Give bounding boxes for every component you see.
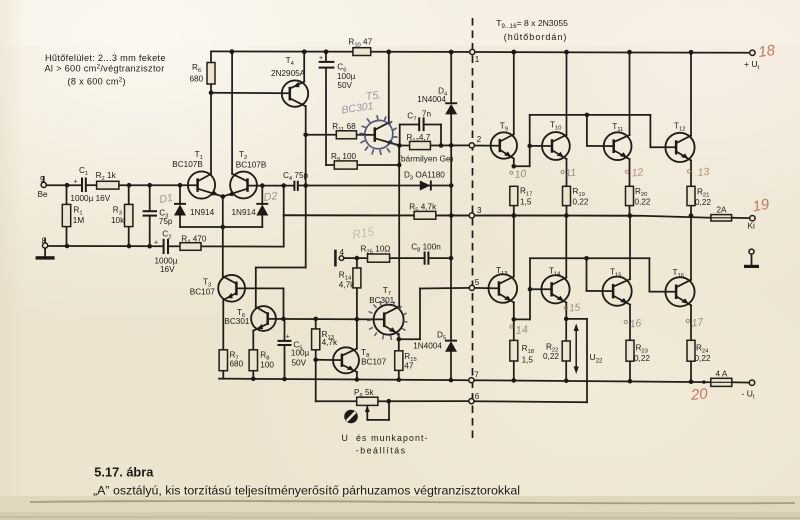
handwritten T5 transistor circle: [360, 115, 398, 155]
T15 base bar: [612, 284, 615, 299]
svg-text:1N4004: 1N4004: [417, 95, 446, 104]
R21 bottom lead: [690, 206, 692, 216]
diode D1 symbol: [174, 205, 186, 216]
node5 to T13 base: [474, 287, 499, 289]
resistor R3 leads: [128, 185, 130, 204]
capacitor C3 plates: [143, 210, 157, 212]
svg-text:2: 2: [477, 135, 482, 144]
R12 right lead to node2: [430, 144, 469, 146]
dot C8 right: [449, 256, 454, 261]
resistor R24: [687, 340, 695, 361]
T14 base wire: [530, 288, 552, 290]
C7 R12 right vertical: [440, 125, 442, 146]
capacitor C2 plates: [163, 239, 165, 254]
T9 emitter diagonal: [500, 150, 514, 159]
T16 emitter arrow: [681, 298, 690, 306]
T4 emitter diagonal and vertical to rail: [290, 82, 304, 89]
R22 bottom lead: [565, 361, 567, 381]
R20 bottom lead: [629, 206, 631, 216]
R9 right lead to T5 emitter node: [357, 164, 399, 166]
node 9 tick: [43, 177, 45, 182]
T13 base bar: [498, 281, 501, 295]
wiper loop: stem bottom wire and up: [366, 406, 368, 420]
svg-text:10: 10: [514, 168, 527, 181]
x451 vertical D3-line to rail3: [450, 186, 452, 216]
svg-text:75p: 75p: [159, 217, 173, 226]
capacitor C3 leads: [149, 185, 151, 211]
T12 emitter arrow: [681, 153, 690, 161]
R22 top lead: [565, 319, 567, 341]
C8 right wire: [429, 257, 451, 259]
resistor R11: [336, 131, 356, 139]
svg-text:+: +: [286, 334, 290, 341]
T4 collector diagonal and long vertical: [290, 98, 306, 106]
resistor R13: [312, 329, 320, 350]
svg-text:1: 1: [475, 55, 480, 64]
svg-text:0,22: 0,22: [695, 198, 711, 207]
diode D5 symbol: [445, 341, 457, 352]
svg-text:2N2905A: 2N2905A: [271, 69, 306, 78]
wire rail to 4A fuse: [704, 381, 711, 383]
svg-text:5: 5: [475, 278, 480, 287]
ground terminal below Ki: stem: [751, 254, 753, 265]
T11 base bar: [612, 139, 615, 153]
dot mid rail x451: [449, 213, 454, 218]
svg-text:BC107B: BC107B: [172, 160, 203, 169]
terminal +Ut: [750, 50, 755, 55]
svg-text:16V: 16V: [160, 265, 175, 274]
dot T14 base: [528, 287, 533, 292]
input wire node 9 to T1 base: [46, 184, 81, 186]
capacitor C4 plates: [293, 181, 295, 191]
T11 collector diagonal and vertical: [614, 135, 630, 142]
T15 collector diagonal and vertical: [613, 279, 630, 287]
T1 base bar: [196, 178, 199, 192]
C5 top lead: [284, 319, 286, 341]
svg-text:(hűtőbordán): (hűtőbordán): [504, 32, 568, 42]
svg-text:U és munkapont-: U és munkapont-: [342, 433, 429, 443]
dot C7R12 right: [439, 143, 444, 148]
dot R13 top: [313, 317, 318, 322]
svg-text:20: 20: [689, 385, 709, 404]
x451 vertical rail3 to C8 line: [450, 216, 452, 259]
dot node2 line at x451: [449, 143, 454, 148]
transistor T10 circle: [542, 132, 570, 160]
resistor R22: [562, 341, 570, 361]
resistor R3: [125, 204, 133, 226]
svg-text:7: 7: [474, 371, 479, 380]
svg-text:1N914: 1N914: [190, 208, 215, 217]
wire 4A fuse to -Ut: [732, 381, 750, 383]
T12 emitter diagonal down to R21: [676, 151, 691, 160]
svg-text:BC301: BC301: [224, 317, 249, 326]
resistor R5: [414, 211, 436, 219]
svg-text:47: 47: [404, 361, 414, 370]
node4 terminal bar: [334, 251, 337, 265]
R24 bottom lead: [690, 361, 692, 382]
R12 left lead: [400, 145, 410, 147]
svg-text:Be: Be: [38, 190, 48, 199]
svg-text:Ki: Ki: [748, 222, 755, 231]
T10 collector diagonal and vertical: [552, 135, 567, 142]
diode D2 vertical: [261, 186, 263, 204]
T4 base bar: [289, 87, 292, 101]
T8 base wire: [316, 359, 342, 361]
node6 return vertical up: [586, 319, 588, 402]
T7 emitter diagonal: [384, 326, 399, 335]
T14 collector diagonal and vertical: [552, 277, 567, 285]
T5 collector vertical: [388, 52, 390, 123]
resistor R1: [62, 204, 70, 226]
node5 jog wire: [399, 338, 420, 340]
fuse 4A: [711, 378, 732, 386]
svg-text:6: 6: [475, 392, 480, 401]
svg-text:1N914: 1N914: [232, 208, 257, 217]
capacitor C5 plates: [278, 340, 292, 342]
T1 emitter diagonal: [198, 189, 223, 197]
dot T14 emitter: [564, 317, 569, 322]
T12 collector diagonal and vertical: [676, 136, 691, 144]
T8 emitter arrow: [347, 365, 356, 373]
ground symbol right output: [744, 265, 759, 268]
T10 emitter diagonal down to R19: [552, 150, 567, 159]
T10 emitter arrow: [557, 151, 566, 159]
dot T8 base tee: [313, 358, 318, 363]
node 7 circle: [469, 378, 474, 383]
svg-text:0,22: 0,22: [634, 354, 650, 363]
wire C4 right to D3 line: [298, 185, 451, 187]
svg-text:1,5: 1,5: [520, 198, 532, 207]
potentiometer wiper arrow: [365, 406, 370, 414]
svg-text:13: 13: [697, 166, 710, 179]
C6 leads: [325, 52, 327, 62]
dot T3 base bias line: [281, 317, 286, 322]
T5 base bar: [374, 127, 377, 141]
transistor T6 circle: [251, 306, 276, 331]
T16 drop and base wire: [648, 258, 650, 291]
handwritten collector numbers lower bank: [510, 302, 705, 337]
wire common emitter T1 T2 down to T3: [222, 197, 224, 277]
pot right lead: [378, 400, 389, 402]
transistor T14 circle: [541, 275, 569, 303]
dots bottom rail: [251, 377, 256, 382]
svg-text:14: 14: [515, 324, 528, 337]
T8 base bar: [341, 354, 344, 367]
dot node4 line R14: [355, 256, 360, 261]
T11 drop and base wire: [586, 115, 588, 146]
svg-text:10k: 10k: [111, 216, 125, 225]
svg-text:Hűtőfelület: 2...3 mm fekete: Hűtőfelület: 2...3 mm fekete: [45, 53, 166, 63]
svg-text:0,22: 0,22: [635, 198, 651, 207]
T1 collector diagonal: [198, 174, 211, 181]
R23 bottom lead: [629, 361, 631, 381]
svg-text:16: 16: [629, 317, 642, 330]
svg-text:Al > 600 cm2/végtranzisztor: Al > 600 cm2/végtranzisztor: [45, 64, 165, 74]
resistor R1 leads: [66, 185, 68, 204]
T12 base bar: [675, 140, 678, 154]
wire node3 to output columns: [474, 215, 640, 217]
transistor T13 circle: [489, 274, 518, 303]
x451 vertical node2-line to D3-line: [450, 145, 452, 185]
resistor R23: [626, 340, 634, 361]
svg-text:9: 9: [40, 175, 45, 184]
svg-text:BC107B: BC107B: [236, 161, 267, 170]
R25 to C8 wire: [390, 257, 424, 259]
capacitor C8 plates: [424, 252, 426, 265]
R14 bottom lead to T7 base node: [356, 288, 358, 319]
svg-text:8: 8: [42, 237, 47, 246]
R13 column top lead: [315, 319, 317, 329]
svg-text:1000µ 16V: 1000µ 16V: [70, 194, 110, 203]
T6 collector diagonal: [256, 307, 268, 314]
T15 emitter diagonal and lead to R23: [613, 296, 630, 305]
wire R4 to feedback corner: [201, 245, 284, 247]
svg-text:+: +: [319, 55, 323, 62]
ground symbol node 8: [36, 256, 55, 259]
svg-text:-beállítás: -beállítás: [356, 446, 407, 456]
T16 base bar: [675, 285, 678, 300]
fuse 4A inner line: [711, 381, 732, 383]
T3 collector diagonal: [223, 277, 236, 284]
terminal ground right: [749, 249, 754, 254]
T3 base bar: [235, 282, 238, 296]
dot T10 base: [527, 144, 532, 149]
svg-text:15: 15: [569, 302, 582, 314]
terminal Ki: [750, 216, 755, 221]
T15 drop and base wire: [586, 258, 588, 291]
wire T2 base tap vertical: [283, 185, 285, 215]
node 6 circle: [469, 399, 474, 404]
bottom negative rail: [219, 379, 704, 383]
C5 bottom lead: [284, 345, 286, 379]
terminal -Ut: [749, 380, 754, 385]
T15 emitter arrow: [620, 297, 629, 305]
resistor R12: [410, 141, 431, 149]
node 8 tick: [44, 239, 46, 244]
wire D1-D2 bottoms: [180, 226, 262, 228]
svg-text:12: 12: [631, 166, 644, 179]
T2 emitter diagonal: [223, 189, 248, 197]
node4 wire to R25: [344, 257, 368, 259]
wire feedback vertical: [283, 215, 285, 246]
svg-text:4 A: 4 A: [716, 370, 728, 379]
svg-text:4,7k: 4,7k: [322, 338, 338, 347]
handwritten ticks around T7: [367, 301, 408, 341]
T2 emitter arrow: [226, 191, 234, 198]
svg-text:1,5: 1,5: [522, 356, 534, 365]
node6 wire right: [474, 401, 587, 402]
T9 collector diagonal and vertical to rail: [500, 134, 514, 141]
svg-text:„A” osztályú, kis torzítású te: „A” osztályú, kis torzítású teljesítmény…: [93, 483, 520, 497]
svg-text:D2: D2: [263, 190, 279, 204]
svg-text:D1: D1: [158, 192, 173, 206]
T5 emitter arrow: [387, 139, 395, 146]
T14 base bar: [550, 282, 553, 296]
T3 emitter diagonal and lead to R7: [223, 293, 236, 300]
svg-text:50V: 50V: [292, 358, 307, 367]
x451 vertical C8 line to D5: [450, 258, 452, 340]
T7 emitter arrow: [389, 326, 398, 334]
dot pot wiper node: [386, 399, 391, 404]
transistor T11 circle: [604, 132, 632, 160]
svg-text:5.17. ábra: 5.17. ábra: [94, 465, 154, 480]
svg-text:0,22: 0,22: [573, 198, 589, 207]
svg-text:(8 x 600 cm2): (8 x 600 cm2): [68, 77, 126, 87]
dot bus2 T15: [584, 256, 589, 261]
T14 emitter diagonal: [552, 294, 567, 303]
svg-text:1M: 1M: [73, 216, 85, 225]
node2 to T9 base: [474, 145, 500, 147]
resistor R10: [353, 48, 371, 56]
dot T7 base tee: [355, 317, 360, 322]
svg-text:4,7k: 4,7k: [339, 281, 355, 290]
T6 emitter diagonal and lead to R8: [253, 324, 267, 331]
wire R5 to node 3: [436, 214, 470, 216]
svg-text:(bármilyen Ge): (bármilyen Ge): [398, 154, 454, 164]
transistor T7 circle: [374, 305, 404, 335]
T10 base wire: [530, 145, 552, 147]
handwritten T5 BC301 text: [341, 89, 382, 116]
R11 lead from T4 collector line: [306, 134, 337, 136]
potentiometer P6 body: [357, 397, 378, 405]
dashed separator line: [472, 18, 474, 443]
vertical T8 base tee down to pot left: [315, 360, 317, 402]
junction dots top rail: [230, 49, 235, 54]
diode D2 symbol: [256, 205, 268, 216]
top supply rail: [211, 51, 752, 52]
diode D1 vertical: [179, 185, 181, 204]
dot T4 collector R11: [303, 133, 308, 138]
R18 top lead: [513, 319, 515, 340]
junction dots ground line: [65, 244, 70, 249]
svg-text:100: 100: [260, 360, 274, 369]
T13 emitter arrow: [504, 295, 513, 303]
svg-text:11: 11: [565, 167, 576, 179]
transistor T9 circle: [491, 132, 517, 158]
svg-text:0,22: 0,22: [543, 352, 559, 361]
R14 top lead: [356, 258, 358, 268]
dot T1 T2 common emitter: [221, 194, 226, 199]
T12 drop and base wire: [649, 115, 651, 147]
diode D3 symbol: [420, 181, 431, 191]
dot T5 emitter node: [397, 143, 402, 148]
lower base bus from T13 emitter: [514, 318, 530, 320]
resistor R21: [687, 186, 695, 205]
transistor T16 circle: [665, 277, 694, 306]
screwdriver adjust symbol: [344, 410, 358, 424]
wire feedback to R5: [284, 214, 414, 216]
svg-text:50V: 50V: [337, 81, 352, 90]
resistor R17: [510, 186, 518, 205]
resistor R14: [353, 268, 361, 288]
resistor R18: [510, 340, 518, 361]
terminal node 4: [339, 256, 344, 261]
handwritten terminal numbers 18 19 20: [689, 42, 777, 404]
dot R6 bottom T4 base: [209, 90, 214, 95]
svg-text:BC107: BC107: [361, 357, 386, 366]
svg-text:100µ: 100µ: [291, 349, 310, 358]
C7 right wire: [424, 124, 441, 126]
x451 vertical D5 to bottom rail: [450, 352, 452, 380]
D4 vertical bottom: [450, 114, 452, 145]
T1 emitter arrow: [211, 190, 219, 197]
svg-text:680: 680: [190, 75, 204, 84]
mid output rail: [284, 215, 711, 218]
wire pot to node6: [389, 400, 469, 402]
R8 bottom lead: [252, 371, 254, 379]
T16 emitter diagonal and lead to R24: [676, 296, 691, 305]
D4 vertical top: [450, 52, 452, 103]
resistor R4: [180, 243, 201, 251]
wire mid rail to 2A fuse out: [732, 217, 750, 219]
svg-text:BC301: BC301: [369, 296, 394, 305]
T11 emitter diagonal down to R20: [614, 150, 630, 159]
T11 emitter arrow: [620, 152, 629, 160]
dot T13 emitter: [512, 317, 517, 322]
svg-text:7n: 7n: [422, 109, 432, 118]
C7 R12 parallel loop left vertical: [399, 125, 401, 146]
R15 bottom lead: [398, 370, 400, 379]
T9 base bar: [499, 139, 502, 152]
node 3 circle: [469, 213, 474, 218]
R13 bottom to T8 base tee: [315, 350, 317, 360]
handwritten collector numbers upper bank: [510, 166, 710, 181]
T5 emitter diagonal: [375, 138, 400, 145]
T14 emitter arrow: [557, 295, 566, 303]
wire T2 base to C4: [248, 185, 294, 187]
T7 collector diagonal and long vertical: [384, 307, 399, 315]
R6 column leads: [210, 52, 212, 63]
terminal node 8: [43, 243, 48, 248]
resistor R8: [249, 350, 257, 371]
resistor R19: [563, 186, 571, 205]
svg-text:1N4004: 1N4004: [413, 342, 442, 351]
transistor T3 circle: [218, 275, 245, 302]
svg-text:+: +: [74, 179, 78, 186]
node6 return to T14 emitter node: [566, 318, 587, 320]
long bias line T6 base to T7 base: [268, 318, 385, 321]
fuse 2A inner line: [711, 217, 732, 219]
node 5 circle: [469, 285, 474, 290]
T4 emitter arrow (PNP inward): [292, 82, 301, 90]
dot emitter line at D1-D2: [221, 225, 226, 230]
svg-text:680: 680: [230, 360, 244, 369]
node 1 circle: [470, 49, 475, 54]
T7 base bar: [383, 312, 386, 327]
T6 emitter arrow: [256, 324, 265, 332]
T4 base wire: [211, 92, 290, 95]
svg-text:4: 4: [340, 248, 345, 257]
R15 top lead: [398, 339, 400, 351]
T8 emitter diagonal and vertical: [342, 365, 357, 372]
svg-text:+: +: [154, 240, 158, 247]
R11 right lead to T5 base: [357, 134, 375, 136]
T13 emitter diagonal: [499, 294, 514, 303]
resistor R15: [395, 351, 403, 371]
svg-text:BC107: BC107: [190, 287, 215, 296]
wire C2 to R4: [169, 245, 180, 247]
T16 collector diagonal and vertical: [676, 280, 691, 288]
resistor R9: [334, 161, 357, 169]
dot T7 emitter node: [397, 337, 402, 342]
capacitor C1 electrolytic plates: [81, 178, 83, 193]
capacitor C7 plates: [418, 117, 420, 131]
node 8 ground stem: [44, 248, 46, 256]
transistor T12 circle: [665, 133, 694, 162]
resistor R7: [219, 350, 227, 371]
bottom ground wire node 8: [48, 245, 163, 247]
transistor T1 circle: [188, 171, 215, 198]
